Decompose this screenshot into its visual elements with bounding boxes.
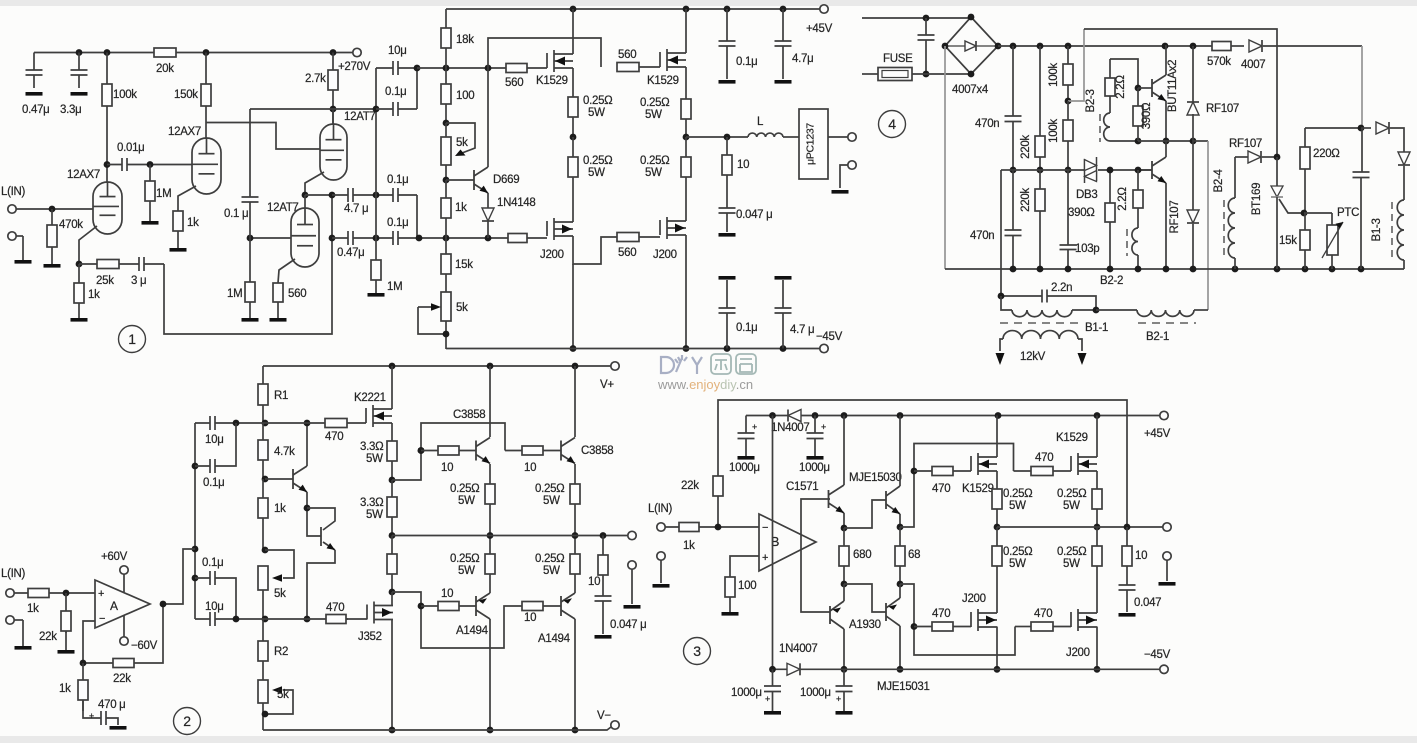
wire B+ row to 0.1u bus — [250, 108, 376, 110]
svg-text:K1529: K1529 — [647, 75, 679, 87]
resistor 1k input circuit3 — [665, 526, 759, 528]
svg-text:10: 10 — [737, 159, 749, 171]
svg-text:5W: 5W — [645, 109, 662, 121]
sense line top — [1084, 29, 1277, 157]
svg-text:0.1μ: 0.1μ — [385, 86, 406, 98]
capacitor 0.1u coupling lower — [376, 237, 419, 239]
svg-text:1M: 1M — [156, 188, 171, 200]
svg-text:+60V: +60V — [101, 551, 128, 563]
resistor 10 base C3858 second — [505, 450, 522, 452]
preset 5k-1 with wiper — [258, 566, 268, 590]
wire to MJE15031 base — [844, 584, 886, 612]
resistor 10 base C3858 first — [438, 446, 459, 455]
mosfet J200 second — [639, 236, 660, 238]
svg-text:220k: 220k — [1020, 188, 1032, 212]
wire K1529-2 drain to rail — [685, 9, 687, 53]
svg-text:2: 2 — [183, 713, 191, 729]
node lower drive row — [262, 616, 269, 623]
svg-text:1N4007: 1N4007 — [779, 643, 817, 655]
svg-text:560: 560 — [618, 247, 636, 259]
capacitor 4.7u +45V filter — [782, 9, 784, 41]
resistor 0.25R 5W upper first — [572, 68, 574, 137]
svg-text:5W: 5W — [1009, 500, 1026, 512]
capacitor 0.1u — [242, 197, 259, 202]
node R1 bottom — [262, 420, 269, 427]
resistor 680 — [843, 528, 845, 584]
capacitor 4.7u coupling upper — [332, 194, 376, 196]
svg-text:4.7μ: 4.7μ — [792, 53, 813, 65]
resistor 220R — [1304, 128, 1306, 147]
svg-text:0.1μ: 0.1μ — [202, 557, 223, 569]
mosfet K2221 — [265, 422, 345, 424]
wire row141 to B2-1 (grey) — [1193, 140, 1208, 142]
svg-text:−60V: −60V — [131, 640, 158, 652]
wire MJE15030 emitter node — [899, 514, 901, 527]
lower base drive bus — [392, 592, 522, 648]
wire input to grid V1 — [16, 208, 93, 210]
svg-text:−: − — [762, 522, 768, 534]
svg-text:570k: 570k — [1207, 56, 1231, 68]
svg-text:1k: 1k — [27, 603, 39, 615]
svg-text:0.1μ: 0.1μ — [203, 477, 224, 489]
tube V3 12AT7 upper SRPP — [320, 124, 347, 180]
circuit 3 top rail — [746, 415, 1160, 417]
mid rail node right — [1094, 524, 1101, 531]
svg-text:12AT7: 12AT7 — [267, 202, 299, 214]
svg-text:560: 560 — [505, 77, 523, 89]
node output rail left — [389, 532, 396, 539]
wire A1494-1 emitter — [489, 574, 491, 593]
svg-text:0.047: 0.047 — [1134, 597, 1161, 609]
capacitor 0.047u zobel — [719, 208, 736, 213]
input terminal 2 grounded — [8, 232, 16, 240]
svg-text:1000μ: 1000μ — [799, 462, 830, 474]
svg-text:1k: 1k — [88, 289, 100, 301]
resistor 25k feedback — [79, 263, 164, 265]
wire MJE15031 emitter up — [899, 584, 901, 598]
transistor C3858 first — [459, 450, 476, 452]
svg-text:MJE15030: MJE15030 — [849, 472, 902, 484]
svg-text:220Ω: 220Ω — [1313, 148, 1340, 160]
wire C3858-1 collector — [489, 366, 491, 437]
svg-text:10μ: 10μ — [205, 434, 224, 446]
resistor 560 gate J200 second — [617, 233, 639, 242]
node SRPP output — [302, 192, 309, 199]
svg-text:15k: 15k — [455, 259, 473, 271]
resistor 20k — [154, 48, 176, 57]
wire J200 c3 source to rail — [996, 627, 998, 670]
svg-text:0.01μ: 0.01μ — [117, 142, 145, 154]
svg-text:K1529: K1529 — [1056, 432, 1088, 444]
capacitor pair bus left — [194, 423, 196, 619]
node 470n row170 — [1010, 167, 1017, 174]
wire V3 cathode to SRPP out — [305, 172, 324, 195]
svg-text:L: L — [757, 116, 764, 128]
svg-text:0.25Ω: 0.25Ω — [583, 155, 613, 167]
svg-text:0.047 μ: 0.047 μ — [736, 209, 773, 221]
node SCR anode — [1274, 154, 1281, 161]
svg-text:A1494: A1494 — [456, 625, 489, 637]
svg-text:12AX7: 12AX7 — [67, 169, 100, 181]
svg-text:22k: 22k — [113, 673, 131, 685]
svg-text:1k: 1k — [187, 217, 199, 229]
svg-text:680: 680 — [853, 549, 871, 561]
svg-text:BT169: BT169 — [1251, 183, 1263, 215]
row 141 emitter line — [1138, 140, 1193, 142]
svg-text:0.047 μ: 0.047 μ — [610, 619, 647, 631]
capacitor 0.01u coupling — [107, 164, 192, 166]
resistor 4.7k — [262, 423, 264, 479]
op-amp B — [759, 514, 816, 571]
resistor 1k to 470u — [82, 663, 84, 711]
resistor 10 base A1494 second — [522, 602, 543, 611]
svg-text:10: 10 — [524, 612, 536, 624]
top loop 2.2R first — [1109, 59, 1111, 78]
svg-text:+: + — [836, 694, 841, 704]
diode 1N4007 top — [788, 410, 801, 422]
resistor 0.25R 5W c3 a — [996, 471, 998, 527]
resistor 0.25R 5W lower first — [572, 137, 574, 216]
svg-text:R2: R2 — [274, 646, 288, 658]
svg-text:1M: 1M — [387, 281, 402, 293]
svg-text:0.1μ: 0.1μ — [387, 217, 408, 229]
svg-text:A1930: A1930 — [849, 619, 881, 631]
op-amp A — [95, 580, 150, 628]
resistor 0.25R 5W c3 c — [1096, 471, 1098, 527]
wire A1494-1 collector — [489, 619, 491, 730]
svg-text:DB3: DB3 — [1076, 189, 1097, 201]
transistor A1494 first — [459, 605, 476, 607]
svg-text:0.25Ω: 0.25Ω — [535, 553, 565, 565]
preset 5k-2 with wiper — [258, 680, 268, 703]
svg-text:0.25Ω: 0.25Ω — [1057, 546, 1087, 558]
schematic number 4 — [879, 111, 906, 138]
svg-text:220k: 220k — [1020, 135, 1032, 159]
wire Q2 collector to row141 — [1165, 141, 1167, 157]
svg-text:4: 4 — [888, 116, 896, 132]
resistor 470 gate J200 c3-second — [1015, 626, 1031, 628]
thermistor PTC — [1331, 213, 1333, 225]
svg-text:470: 470 — [1034, 608, 1052, 620]
svg-text:B1-1: B1-1 — [1085, 322, 1108, 334]
transistor BUT11Ax2 second — [1138, 169, 1152, 171]
svg-text:+: + — [89, 711, 94, 721]
svg-text:0.25Ω: 0.25Ω — [1003, 488, 1033, 500]
wire A1494-2 collector — [574, 619, 576, 730]
svg-text:3.3Ω: 3.3Ω — [360, 441, 384, 453]
schematic number 2 — [174, 708, 201, 735]
svg-text:V−: V− — [597, 710, 611, 722]
output terminal — [828, 136, 848, 138]
transistor BUT11Ax2 first — [1138, 87, 1152, 89]
svg-text:+45V: +45V — [806, 23, 833, 35]
svg-text:PTC: PTC — [1337, 207, 1359, 219]
svg-text:4007: 4007 — [1241, 59, 1265, 71]
svg-text:1k: 1k — [683, 540, 695, 552]
bus B vertical — [416, 68, 418, 109]
resistor 22k to ground — [65, 593, 67, 633]
svg-text:100: 100 — [456, 90, 474, 102]
svg-text:J200: J200 — [540, 249, 564, 261]
wire Q1 collector to rail — [1165, 46, 1166, 75]
svg-text:R1: R1 — [274, 390, 288, 402]
svg-text:10: 10 — [1135, 550, 1147, 562]
node 12AT7 plate supply — [330, 106, 337, 113]
node gate 220R 15k — [1301, 210, 1308, 217]
capacitor 0.1u lower — [195, 578, 236, 619]
svg-text:RF107: RF107 — [1169, 200, 1181, 233]
svg-text:0.25Ω: 0.25Ω — [1003, 546, 1033, 558]
svg-text:470n: 470n — [975, 118, 999, 130]
wire row170 left drop — [1000, 170, 1002, 296]
capacitor 470u electrolytic — [83, 700, 101, 718]
svg-text:3.3Ω: 3.3Ω — [360, 497, 384, 509]
svg-text:150k: 150k — [174, 89, 198, 101]
svg-text:0.25Ω: 0.25Ω — [640, 155, 670, 167]
svg-text:BUT11Ax2: BUT11Ax2 — [1167, 60, 1179, 112]
svg-text:68: 68 — [908, 549, 920, 561]
node J352 drive — [389, 589, 396, 596]
transformer B1-3 winding — [1397, 200, 1404, 260]
feedback resistor 22k — [83, 604, 163, 663]
wire K1529-2 c3 drain to rail — [1096, 416, 1098, 458]
resistor R2 — [262, 619, 264, 680]
terminal +45V circuit3 — [1160, 411, 1168, 419]
svg-text:5W: 5W — [458, 565, 475, 577]
resistor 100 — [445, 68, 447, 123]
mosfet K1529 second — [639, 66, 660, 68]
output node row to L — [686, 136, 748, 138]
wire RF107 chain mid — [1192, 114, 1194, 141]
svg-text:470k: 470k — [59, 219, 83, 231]
wire C3858-2 emitter — [574, 464, 576, 484]
bottom rail -45V — [446, 348, 824, 350]
wire op-amp output to cap bus — [163, 549, 195, 604]
diode 4007 — [1231, 45, 1244, 47]
resistor 0.25R 5W upper second — [685, 67, 687, 137]
diac DB3 — [1084, 159, 1097, 182]
resistor 560 gate K1529 first — [506, 64, 527, 73]
circuit 2 top rail V+ — [263, 365, 611, 367]
resistor 10 zobel c3 — [1126, 527, 1128, 585]
wire A1494-2 emitter — [574, 574, 576, 593]
svg-text:C3858: C3858 — [453, 409, 485, 421]
node 100k junction — [1065, 98, 1072, 105]
resistor 470k grid leak — [51, 209, 53, 264]
diode RF107 first — [1192, 46, 1194, 102]
lower gate node feed — [900, 584, 1015, 655]
circuit 4 bottom rail — [945, 268, 1404, 270]
capacitor 0.47u (rail filter) — [33, 53, 35, 71]
svg-text:1N4007: 1N4007 — [771, 422, 809, 434]
input terminal 2 grounded circuit2 — [6, 616, 14, 624]
svg-text:A: A — [110, 599, 118, 613]
svg-text:4007x4: 4007x4 — [952, 84, 989, 96]
node output rail mid — [683, 134, 690, 141]
node upper base drive — [389, 477, 396, 484]
svg-text:470: 470 — [326, 602, 344, 614]
terminal +270V — [353, 48, 361, 56]
mosfet K1529 c3-second — [1053, 470, 1071, 472]
wire V4 plate — [304, 195, 306, 208]
svg-text:470: 470 — [932, 483, 950, 495]
resistor 1M bias V4 — [249, 238, 251, 282]
terminal V+ — [611, 362, 619, 370]
resistor 0.25R 5W c3 b — [996, 527, 998, 613]
svg-text:390Ω: 390Ω — [1068, 207, 1095, 219]
svg-text:C3858: C3858 — [581, 445, 613, 457]
svg-text:FUSE: FUSE — [883, 53, 913, 65]
transformer B1 primary 12kV — [1003, 331, 1078, 339]
svg-text:K1529: K1529 — [536, 75, 568, 87]
wire Q2 emitter return — [307, 550, 335, 619]
svg-text:0.25Ω: 0.25Ω — [583, 95, 613, 107]
mosfet K1529 first — [527, 67, 547, 69]
svg-text:−45V: −45V — [1144, 649, 1171, 661]
wire J200-2 to bottom rail — [685, 235, 687, 349]
circuit 1 top supply rail +270V — [34, 52, 353, 54]
fuse — [862, 73, 878, 75]
svg-text:0.1μ: 0.1μ — [736, 56, 757, 68]
wire B2-3 bottom to row141 — [1110, 140, 1138, 142]
svg-text:100k: 100k — [113, 89, 137, 101]
wire V4 cathode to 560 — [278, 259, 295, 283]
diode vertical right — [1398, 152, 1410, 165]
svg-text:μPC1237: μPC1237 — [805, 123, 817, 165]
resistor 10 zobel — [726, 137, 728, 208]
svg-text:560: 560 — [618, 49, 636, 61]
resistor 0.25R 5W up first — [489, 484, 491, 536]
output ground terminal — [848, 161, 856, 169]
svg-text:10: 10 — [588, 576, 600, 588]
svg-text:5W: 5W — [366, 453, 383, 465]
capacitor 0.1u -45V filter — [719, 276, 736, 280]
transistor D669 — [446, 179, 474, 181]
svg-text:470: 470 — [932, 608, 950, 620]
svg-text:10: 10 — [441, 462, 453, 474]
bus A vertical with 1M to ground — [375, 68, 377, 260]
gate drive row lower — [419, 237, 508, 239]
svg-text:10μ: 10μ — [205, 601, 224, 613]
transistor Q2 cascode — [320, 527, 322, 546]
wire Q1 collector to gate row — [306, 423, 308, 466]
resistor 1k cathode V1 — [78, 264, 80, 303]
wire MJE15030 collector to rail — [899, 416, 901, 487]
svg-text:4.7k: 4.7k — [274, 446, 295, 458]
svg-text:0.25Ω: 0.25Ω — [535, 483, 565, 495]
diode 1N4007 bottom — [787, 663, 800, 675]
resistor 470 gate J200 c3-first — [914, 626, 932, 628]
resistor 1k bias — [262, 479, 264, 550]
bus B vertical lower — [416, 195, 418, 238]
svg-text:B2-3: B2-3 — [1085, 89, 1097, 112]
mosfet J200 c3-second — [1053, 626, 1071, 628]
node D669 base — [443, 177, 450, 184]
node MJE15031 emitter — [897, 581, 904, 588]
node Q1 base — [262, 476, 269, 483]
wire J352 source to rail — [391, 620, 393, 730]
wire L to protector — [783, 136, 799, 138]
output terminal 2 c3 — [1163, 552, 1171, 560]
svg-text:3 μ: 3 μ — [131, 275, 146, 287]
tube V1 12AX7 first stage — [106, 165, 108, 184]
wire C1571 collector to rail — [843, 416, 845, 486]
wire C1571 emitter node — [843, 513, 845, 528]
wire J200-2 c3 source to rail — [1096, 627, 1098, 670]
resistor 100k second — [1067, 101, 1069, 170]
wire V2 cathode to 1k — [178, 186, 196, 211]
svg-text:2.7k: 2.7k — [305, 73, 326, 85]
capacitor 10u upper pair — [376, 67, 417, 69]
svg-text:100k: 100k — [1048, 119, 1060, 143]
resistor 0.25R 5W c3 d — [1096, 527, 1098, 613]
svg-text:J200: J200 — [962, 593, 986, 605]
diode 1N4148 — [487, 193, 489, 238]
svg-text:2.2Ω: 2.2Ω — [1117, 187, 1129, 211]
svg-text:A1494: A1494 — [538, 633, 571, 645]
svg-text:18k: 18k — [456, 34, 474, 46]
wire to MJE15030 base — [844, 500, 886, 528]
preset 5k lower with wiper loop — [441, 292, 451, 321]
resistor 0.25R 5W low second — [574, 536, 576, 575]
svg-text:5W: 5W — [588, 167, 605, 179]
svg-text:RF107: RF107 — [1206, 103, 1239, 115]
wire plate V1 to 100k — [104, 161, 111, 168]
svg-text:12AX7: 12AX7 — [168, 126, 201, 138]
node grid V2 — [147, 161, 154, 168]
row 170 oscillator line — [1001, 169, 1013, 171]
node input — [63, 590, 70, 597]
resistor 150k — [205, 53, 207, 123]
wire C3858-1 emitter — [489, 464, 491, 484]
capacitor 1000u neg first — [769, 666, 776, 673]
svg-text:5W: 5W — [366, 509, 383, 521]
mosfet J200 c3-first — [953, 626, 971, 628]
X capacitor — [925, 18, 927, 35]
svg-text:+45V: +45V — [1144, 428, 1171, 440]
transistor MJE15030 — [885, 491, 887, 509]
schematic number 1 — [119, 326, 146, 353]
resistor 220k second — [1039, 170, 1041, 269]
wire node480 to base bus — [392, 423, 505, 480]
input ground circuit3 — [657, 552, 665, 560]
terminal -45V — [820, 344, 828, 352]
transistor A1930 — [829, 606, 831, 624]
svg-text:K1529: K1529 — [962, 483, 994, 495]
resistor 18k — [445, 9, 447, 68]
node 220k row170 — [1037, 167, 1044, 174]
resistor 390R first — [1137, 88, 1139, 141]
svg-text:K2221: K2221 — [354, 392, 386, 404]
svg-text:L(IN): L(IN) — [1, 568, 26, 580]
svg-text:B2-4: B2-4 — [1213, 169, 1225, 193]
svg-text:5W: 5W — [645, 167, 662, 179]
capacitor 1000u pos second — [814, 416, 816, 434]
svg-text:1M: 1M — [227, 288, 242, 300]
resistor 470 gate K1529 c3-second — [1014, 470, 1032, 472]
diode right row128 — [1361, 127, 1371, 129]
capacitor 0.1u coupling upper — [376, 194, 417, 196]
wire J200 drain — [572, 216, 574, 222]
wire V4 grid row — [250, 237, 291, 239]
svg-text:0.47μ: 0.47μ — [337, 247, 365, 259]
resistor 15k — [445, 238, 447, 292]
node 5k-1 wiper tie — [262, 547, 269, 554]
svg-text:5W: 5W — [543, 565, 560, 577]
svg-text:100k: 100k — [1048, 63, 1060, 87]
resistor 68 — [899, 527, 901, 584]
resistor 220k first — [1039, 46, 1041, 170]
